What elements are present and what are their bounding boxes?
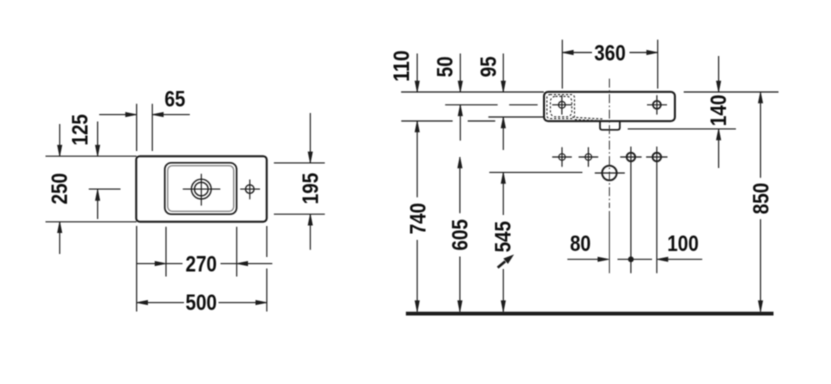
tap hole crosshair vertical [249,180,251,200]
dimension 270 left arrowhead [155,261,166,265]
face fixing hole right circle [653,101,661,109]
drain inner circle [195,182,209,196]
dimension 740 line lower [416,240,418,312]
mounting hole B crosshair [579,156,599,158]
tap hole crosshair horizontal [240,188,260,190]
mounting hole C crosshair horizontal [620,156,641,158]
dimension 125 upper arrowhead [95,145,99,156]
hidden basin outer dashed [547,95,575,119]
svg-text:605: 605 [447,219,472,250]
dimension 360 line left [562,52,592,54]
wall top line right [684,91,779,93]
dimension 195 lower arrow shaft [309,214,311,250]
dimension 65 left arrowhead [126,112,137,116]
svg-text:545: 545 [490,221,515,252]
level line tap center [445,104,497,106]
svg-text:360: 360 [594,41,625,66]
mounting hole A circle [559,154,566,161]
dimension boundary dot [628,257,633,262]
svg-text:500: 500 [186,290,217,315]
dimension 100 tail [665,258,702,260]
dimension 250 lower arrowhead [58,222,62,233]
sink outline front [544,92,675,121]
odor trap outlet circle [602,166,617,181]
svg-text:50: 50 [432,56,457,77]
wall top line left [401,91,544,93]
dimension 140 bottom extension line [628,128,736,130]
dimension 500 right arrowhead [256,300,267,304]
basin rim inner shading [168,166,234,212]
dimension 195 upper arrowhead [308,152,312,163]
svg-text:110: 110 [389,50,414,81]
ground line [406,312,774,316]
svg-text:250: 250 [47,173,72,204]
dimension 65 extension line left [136,104,138,151]
dimension 125 upper arrow shaft [97,122,99,157]
dimension 500 line left [137,302,184,304]
hidden basin inner dashed [550,96,571,116]
dimension 250 upper arrow shaft [59,124,61,156]
dimension 360 line right [630,52,658,54]
basin rim outer [165,163,237,214]
svg-text:140: 140 [706,95,731,126]
dimension 80 tail [567,258,600,260]
dimension 195 upper arrow shaft [309,113,311,163]
face fixing hole right crosshair [647,104,667,106]
tap hole circle [246,185,255,194]
dimension 270 mid segment left [166,263,183,265]
mounting hole D crosshair horizontal [646,156,667,158]
svg-text:740: 740 [406,203,431,234]
mounting hole B circle [585,154,592,161]
mounting hole D circle [653,153,662,162]
dimension 850 line upper [760,92,762,178]
drain stub [600,121,620,130]
dimension 500 extension line left [136,226,138,312]
dimension 545 elbow arrow [498,261,506,267]
svg-text:850: 850 [748,183,773,214]
dimension 65 left tail [99,114,136,116]
svg-text:125: 125 [67,114,92,145]
dimension 195 extension line bottom [274,213,325,215]
dimension 195 extension line top [274,162,325,164]
level line sink bottom left extension [401,120,452,122]
dimension 110 down arrow [416,54,418,93]
sink outline plan [136,156,267,222]
dimension 125 lower arrowhead [95,189,99,200]
dimension 605 line upper [459,157,461,213]
drain crosshair horizontal [183,188,221,190]
vertical centerline [608,79,610,208]
dimension 100 arrowhead [657,257,668,261]
dimension 95 up arrow [502,117,504,150]
mounting hole D vertical line down [656,147,658,274]
dimension 140 down arrow [718,56,720,92]
dimension 500 extension line right lower [266,269,268,312]
dimension 500 left arrowhead [137,300,148,304]
svg-text:80: 80 [570,231,591,256]
drain crosshair vertical [200,174,202,206]
plan bottom edge extension line left [46,221,137,223]
odor trap outlet crosshair horizontal [595,172,625,174]
dimension 250 lower arrow shaft [59,222,61,254]
dimension 360 extension line left [561,40,563,89]
vertical centerline lower solid part [608,211,610,273]
svg-text:65: 65 [164,87,185,112]
dimension 270 extension line left [165,227,167,277]
drain outer circle [191,179,211,199]
dimension 50 up arrow [459,105,461,140]
dimension 850 line lower [760,219,762,312]
dimension 545 line lower [502,269,504,312]
face fixing hole left crosshair [552,104,572,106]
level line basin depth [488,116,543,118]
svg-text:100: 100 [667,231,698,256]
dimension 80 arrowhead [598,257,609,261]
dimension 125 lower arrow shaft [97,189,99,219]
dimension 65 right tail [152,114,190,116]
dimension 545 line upper [502,172,504,215]
dimension 605 line lower [459,257,461,312]
dimension 195 lower arrowhead [308,214,312,225]
dimension 140 up arrow [718,129,720,168]
svg-text:270: 270 [186,252,217,277]
dimension 270 right arrowhead [237,261,248,265]
dimension 270 right tail [237,263,273,265]
dimension 740 line upper [416,121,418,197]
level line drain center [489,171,582,173]
dimension 270 mid segment right [221,263,237,265]
plan top edge extension line left [46,155,137,157]
dimension 250 upper arrowhead [58,145,62,156]
svg-text:195: 195 [298,173,323,204]
svg-text:95: 95 [476,56,501,77]
dimension 50 down arrow [459,54,461,93]
dimension 360 extension line right [657,40,659,89]
dimension 500 line right [219,302,267,304]
dimension 270 extension line right [236,227,238,277]
hidden basin bottom dashed line lower [575,120,601,121]
mounting hole C circle [627,153,636,162]
dimension 270 left tail [137,263,166,265]
dimension 95 down arrow [502,54,504,93]
centerline extension left of drain [89,188,121,190]
mounting hole C vertical line down [630,147,632,274]
dimension 65 extension line right [151,104,153,151]
hidden basin bottom dashed line upper [572,117,603,119]
face fixing hole left circle [559,101,566,108]
mounting hole A crosshair [552,156,572,158]
dimension 65 right arrowhead [152,112,163,116]
dimension 500 extension line right upper [266,226,268,257]
dimension 80-100 middle segment [618,258,653,260]
